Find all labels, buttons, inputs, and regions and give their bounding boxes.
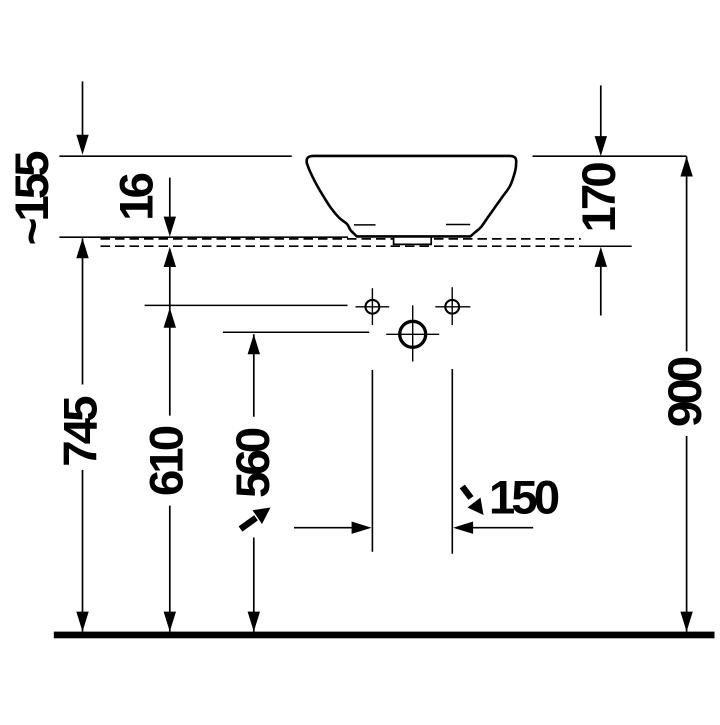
foot-ring hidden line right — [446, 224, 470, 226]
wall top line left segment — [59, 155, 291, 157]
drain hole crosshair — [386, 333, 439, 335]
faucet hole right crosshair — [435, 306, 470, 308]
extension line hole right — [451, 369, 453, 554]
dimension 170 line bottom — [600, 260, 602, 316]
leader arrow for 560 — [241, 508, 271, 530]
dimension 170 line top — [600, 85, 602, 140]
reference line 560 — [223, 331, 369, 333]
basin foot — [394, 235, 432, 244]
svg-text:170: 170 — [573, 163, 626, 233]
dimension ~155 line — [82, 81, 84, 140]
hidden edge dashed upper — [101, 238, 581, 240]
drain hole circle — [400, 321, 426, 347]
counter front edge solid line — [59, 236, 348, 238]
dimension 745 line — [82, 238, 84, 384]
foot-ring hidden line left — [354, 224, 376, 226]
hidden edge dashed lower — [101, 245, 581, 247]
washbasin body — [307, 156, 517, 237]
svg-text:745: 745 — [54, 396, 107, 467]
svg-text:150: 150 — [489, 472, 559, 525]
dimension 150 horizontal — [294, 527, 355, 529]
svg-text:610: 610 — [141, 426, 194, 496]
svg-text:16: 16 — [111, 174, 164, 221]
dimension 16 arrows — [169, 178, 171, 220]
faucet hole left crosshair — [356, 306, 390, 308]
shelf solid line right — [581, 245, 632, 247]
leader arrow for 150 — [462, 487, 483, 516]
svg-text:~155: ~155 — [6, 151, 59, 246]
dimension 900 line — [686, 157, 688, 352]
wall top line right segment — [533, 155, 687, 157]
faucet hole left circle — [366, 300, 380, 314]
faucet hole right circle — [445, 300, 459, 314]
extension line hole left — [371, 370, 373, 552]
dimension 610 line — [169, 249, 171, 416]
dimension 560 line — [253, 334, 255, 417]
svg-text:900: 900 — [659, 357, 712, 427]
reference line 610 — [145, 304, 348, 306]
floor line — [54, 632, 715, 639]
svg-text:560: 560 — [227, 428, 280, 498]
